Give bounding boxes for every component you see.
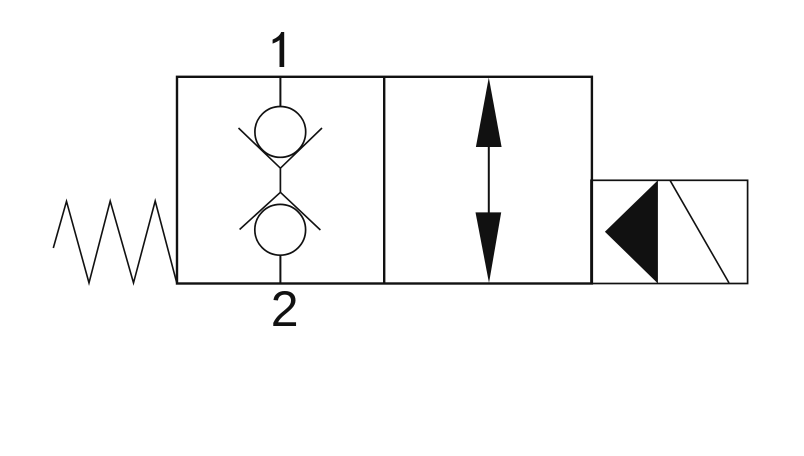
valve seat lower [240,192,321,230]
port 2 line [279,255,281,283]
check ball lower [255,204,306,255]
flow arrow up head [476,78,502,148]
solenoid box [591,180,748,283]
port 1 label [273,32,285,67]
flow arrow down head [476,212,502,283]
valve seat upper [239,128,323,168]
position divider [383,77,385,284]
solenoid triangle [605,180,658,283]
check ball upper [255,106,306,157]
port 1 line [279,77,281,107]
link line [279,168,281,192]
svg-text:2: 2 [271,281,299,337]
spring [53,201,177,283]
valve body outline [177,77,592,284]
flow arrow shaft [488,146,490,213]
solenoid diagonal [670,180,729,283]
